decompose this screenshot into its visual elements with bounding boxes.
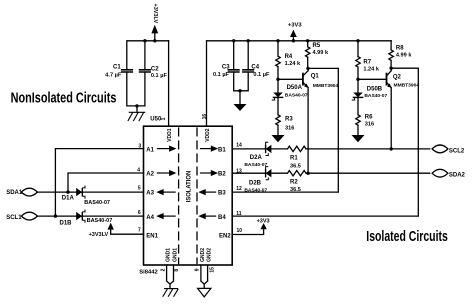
svg-text:C1: C1	[113, 64, 121, 70]
svg-text:VDD1: VDD1	[167, 128, 173, 142]
svg-text:GND1: GND1	[166, 248, 172, 262]
svg-text:R7: R7	[363, 60, 371, 66]
svg-text:R4: R4	[285, 54, 293, 60]
svg-text:GND2: GND2	[200, 248, 206, 262]
svg-text:B2: B2	[218, 172, 226, 178]
svg-text:B1: B1	[218, 147, 226, 153]
svg-text:316: 316	[285, 126, 294, 132]
svg-text:36.5: 36.5	[290, 187, 301, 193]
svg-text:5: 5	[138, 186, 141, 192]
svg-text:BAS40-07: BAS40-07	[244, 162, 267, 168]
svg-text:8: 8	[174, 269, 180, 272]
svg-text:D50B: D50B	[367, 86, 383, 92]
svg-text:4.99 k: 4.99 k	[313, 50, 329, 56]
svg-text:D1A: D1A	[62, 196, 75, 202]
svg-text:GND2: GND2	[207, 248, 213, 262]
svg-text:Isolated Circuits: Isolated Circuits	[366, 228, 448, 245]
svg-text:BAS40-07: BAS40-07	[364, 93, 387, 99]
svg-text:R8: R8	[396, 46, 404, 52]
svg-text:1.24 k: 1.24 k	[285, 61, 301, 67]
svg-text:R3: R3	[285, 117, 293, 123]
svg-text:Si8442: Si8442	[139, 269, 157, 275]
svg-text:C3: C3	[222, 65, 230, 71]
svg-text:+3V3LV: +3V3LV	[89, 232, 109, 238]
svg-text:D2B: D2B	[249, 181, 262, 187]
svg-text:4.7 µF: 4.7 µF	[105, 72, 122, 78]
svg-text:SCL1: SCL1	[6, 215, 22, 221]
svg-text:EN1: EN1	[146, 233, 158, 239]
svg-text:D2A: D2A	[250, 155, 263, 161]
svg-text:16: 16	[202, 114, 208, 120]
svg-text:Q1: Q1	[311, 74, 320, 80]
svg-text:4.99 k: 4.99 k	[396, 53, 412, 59]
svg-text:36.5: 36.5	[290, 163, 301, 169]
svg-text:A2: A2	[146, 172, 154, 178]
svg-text:7: 7	[138, 228, 141, 234]
svg-text:EN2: EN2	[219, 233, 231, 239]
svg-text:2: 2	[160, 268, 166, 271]
svg-text:BAS40-07: BAS40-07	[244, 188, 267, 194]
svg-text:GND1: GND1	[172, 248, 178, 262]
svg-text:B4: B4	[218, 215, 226, 221]
svg-text:1.24 k: 1.24 k	[363, 66, 379, 72]
svg-text:A3: A3	[146, 191, 154, 197]
svg-text:9: 9	[194, 268, 200, 271]
svg-text:C4: C4	[251, 65, 259, 71]
svg-text:MMBT3904: MMBT3904	[313, 83, 339, 89]
svg-text:ISOLATION: ISOLATION	[186, 171, 192, 203]
svg-text:C2: C2	[151, 67, 159, 73]
svg-text:B3: B3	[218, 191, 226, 197]
svg-text:11: 11	[236, 211, 242, 217]
svg-text:15: 15	[210, 267, 216, 273]
svg-text:6: 6	[138, 210, 141, 216]
svg-text:MMBT3904: MMBT3904	[394, 83, 420, 89]
svg-text:R6: R6	[365, 114, 373, 120]
svg-text:NonIsolated Circuits: NonIsolated Circuits	[11, 89, 117, 106]
svg-text:A1: A1	[146, 147, 154, 153]
svg-text:+3V3LV: +3V3LV	[152, 4, 158, 24]
svg-text:13: 13	[236, 168, 242, 174]
svg-text:R5: R5	[313, 43, 321, 49]
svg-text:BAS40-07: BAS40-07	[87, 218, 113, 224]
svg-text:D1B: D1B	[60, 221, 73, 227]
svg-text:SCL2: SCL2	[449, 149, 465, 155]
svg-text:4: 4	[137, 167, 140, 173]
svg-text:316: 316	[365, 122, 374, 128]
svg-text:BAS40-07: BAS40-07	[285, 93, 308, 99]
svg-text:14: 14	[236, 143, 242, 149]
svg-text:D50A: D50A	[287, 85, 303, 91]
svg-text:BAS40-07: BAS40-07	[84, 200, 110, 206]
svg-text:+3V3: +3V3	[257, 218, 270, 224]
svg-text:SDA2: SDA2	[449, 173, 466, 179]
svg-text:0.1 µF: 0.1 µF	[253, 72, 270, 78]
svg-text:1: 1	[161, 117, 167, 120]
svg-text:R1: R1	[290, 156, 298, 162]
svg-text:0.1 µF: 0.1 µF	[213, 72, 230, 78]
svg-text:Q2: Q2	[393, 74, 402, 80]
svg-text:12: 12	[236, 186, 242, 192]
svg-text:SDA1: SDA1	[6, 190, 23, 196]
svg-text:A4: A4	[146, 215, 154, 221]
svg-text:10: 10	[237, 228, 243, 234]
svg-text:+3V3: +3V3	[288, 22, 302, 28]
svg-text:R2: R2	[290, 180, 298, 186]
svg-text:0.1 µF: 0.1 µF	[151, 73, 168, 79]
svg-text:VDD2: VDD2	[205, 128, 211, 142]
svg-text:3: 3	[138, 144, 141, 150]
